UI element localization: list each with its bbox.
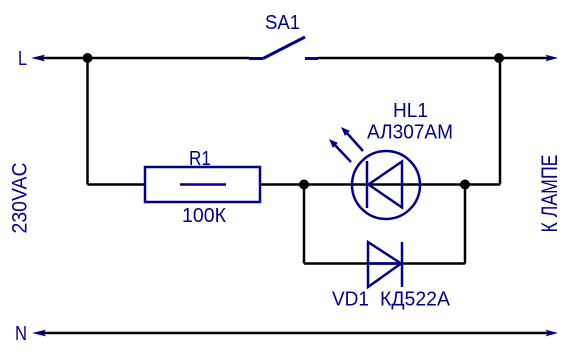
wire: left vertical from L junction [86, 58, 89, 185]
wire: horizontal to resistor [88, 183, 147, 186]
svg-text:КД522А: КД522А [380, 289, 451, 311]
wire: lamp branch vertical [499, 58, 502, 185]
switch SA1 [249, 37, 318, 59]
wire: top L rail left segment [40, 57, 249, 60]
LED HL1 light arrow lower [329, 139, 338, 148]
wire: L line left arrowhead [31, 55, 45, 62]
wire: left vertical to diode row [303, 185, 306, 264]
svg-text:VD1: VD1 [332, 289, 369, 311]
diode VD1 cathode bar [401, 242, 404, 287]
svg-text:N: N [15, 323, 27, 345]
junction: L rail / resistor branch [83, 53, 93, 63]
svg-text:HL1: HL1 [393, 100, 428, 122]
LED HL1 circle [352, 151, 420, 219]
LED HL1 triangle [369, 162, 403, 208]
wire: L rail right arrowhead [546, 55, 559, 62]
diode VD1 triangle [368, 242, 401, 287]
svg-text:100К: 100К [182, 205, 226, 227]
wire: N rail left arrowhead [32, 330, 46, 337]
junction: L rail / lamp branch [494, 53, 504, 63]
LED HL1 light arrow upper [341, 127, 350, 136]
svg-text:L: L [18, 48, 27, 70]
diode VD1 anode lead overlay [369, 262, 401, 265]
wire: right vertical to diode row [464, 185, 467, 264]
svg-text:АЛ307АМ: АЛ307АМ [367, 122, 453, 144]
wire: N rail [41, 332, 548, 335]
wire: top L rail right segment [318, 57, 548, 60]
wire: resistor to lamp-branch vertical (passes through LED) [260, 183, 500, 186]
resistor R1 body [145, 167, 260, 202]
junction: left node of LED/diode pair [299, 180, 309, 190]
junction: right node of LED/diode pair [460, 180, 470, 190]
svg-text:К ЛАМПЕ: К ЛАМПЕ [537, 155, 562, 233]
resistor R1 power-rating dash [180, 183, 226, 186]
wire: N rail right arrowhead [546, 330, 559, 337]
svg-text:230VAC: 230VAC [9, 163, 32, 234]
wire: diode row horizontal [304, 262, 465, 265]
LED HL1 cathode bar [366, 161, 369, 208]
svg-text:SA1: SA1 [265, 12, 300, 34]
